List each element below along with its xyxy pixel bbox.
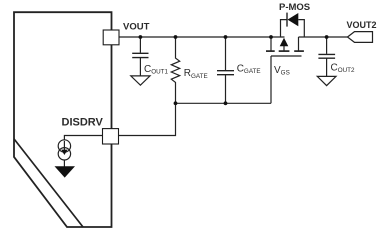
node junction dot COUT2	[325, 35, 329, 39]
IC U1 body outline	[14, 12, 112, 227]
current source I1 circles	[58, 140, 70, 152]
node junction dot CGATE bottom	[224, 101, 228, 105]
svg-text:CGATE: CGATE	[237, 63, 261, 75]
pin pad DISDRV	[103, 129, 119, 144]
body diode D1 triangle	[288, 13, 299, 26]
current sink ground arrow	[55, 166, 76, 177]
transistor Q1 body stub	[283, 45, 285, 51]
node junction dot COUT1	[139, 35, 143, 39]
node junction dot RGATE top	[174, 35, 178, 39]
svg-text:P-MOS: P-MOS	[279, 2, 310, 13]
transistor Q1 gate bar	[271, 55, 302, 57]
current source I1 arrow head	[61, 150, 67, 155]
wire VOUT top rail	[119, 36, 285, 38]
transistor Q1 source stub	[270, 37, 272, 51]
wire drain rail to VOUT2	[299, 36, 348, 38]
svg-text:VGS: VGS	[274, 65, 290, 77]
node junction dot CGATE top	[224, 35, 228, 39]
ground under COUT1	[131, 76, 150, 85]
wire bottom gate rail	[176, 102, 272, 104]
IC torn-edge inner line	[14, 139, 83, 227]
transistor Q1 drain stub	[298, 37, 300, 51]
svg-text:VOUT2: VOUT2	[347, 20, 377, 30]
svg-text:RGATE: RGATE	[184, 68, 208, 80]
node junction dot RGATE bottom	[174, 101, 178, 105]
capacitor COUT2	[318, 37, 335, 76]
svg-text:COUT2: COUT2	[331, 63, 356, 75]
current source I1 arrow shaft	[63, 141, 65, 150]
ground under COUT2	[317, 76, 336, 85]
wire DISDRV branch	[119, 103, 176, 135]
wire gate drop	[270, 56, 272, 103]
wire current source to sink arrow	[63, 160, 65, 167]
body diode D1 wiring	[281, 20, 288, 37]
capacitor COUT1	[132, 37, 148, 76]
transistor Q1 P-MOS channel bars	[266, 50, 304, 52]
body diode D1 cathode bar	[286, 13, 288, 27]
svg-text:VOUT: VOUT	[123, 22, 150, 33]
connector VOUT2 tag	[348, 32, 373, 43]
svg-text:DISDRV: DISDRV	[62, 116, 104, 128]
transistor Q1 body arrow head	[280, 38, 289, 47]
node junction dot PMOS source	[269, 35, 273, 39]
capacitor CGATE	[217, 37, 234, 103]
resistor RGATE	[171, 37, 179, 103]
svg-text:COUT1: COUT1	[144, 64, 169, 76]
pin pad VOUT	[103, 30, 119, 45]
wire DISDRV to current source	[64, 136, 102, 141]
